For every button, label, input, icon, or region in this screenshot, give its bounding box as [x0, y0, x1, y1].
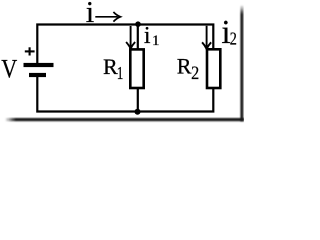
node junction dot bottom	[135, 109, 141, 115]
svg-text:i: i	[144, 23, 151, 49]
resistor R2 body	[207, 49, 220, 88]
label i1	[144, 23, 160, 49]
svg-text:1: 1	[117, 63, 124, 83]
resistor R1 body	[130, 49, 143, 88]
svg-text:R: R	[103, 54, 118, 79]
svg-text:2: 2	[191, 64, 199, 84]
svg-text:1: 1	[152, 33, 160, 49]
label i2	[221, 14, 237, 51]
svg-text:R: R	[177, 53, 192, 78]
label R2	[177, 53, 200, 84]
svg-text:2: 2	[230, 29, 237, 49]
battery plus sign	[25, 47, 35, 55]
arrow for current i	[95, 12, 120, 22]
wire left-lower+bottom+right-lower loop	[37, 77, 213, 112]
battery V negative plate	[29, 73, 46, 77]
node junction dot top	[135, 21, 141, 27]
svg-text:V: V	[1, 55, 17, 84]
arrow for current i2	[202, 26, 211, 49]
wire R1 branch lower	[137, 89, 139, 112]
label R1	[103, 54, 123, 83]
wire R1 branch upper	[137, 25, 139, 49]
svg-text:i: i	[86, 0, 94, 29]
wire top+left-upper+right-upper loop	[37, 25, 213, 64]
battery V positive plate	[24, 63, 54, 67]
arrow for current i1	[126, 26, 135, 49]
